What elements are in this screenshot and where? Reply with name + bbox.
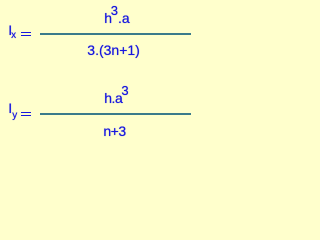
numerator h.a^3: [104, 91, 128, 106]
label I (formula 2): [8, 101, 12, 115]
equals sign 1 top bar: [21, 32, 30, 34]
equals sign 2 top bar: [21, 112, 30, 114]
denominator n+3: [103, 124, 125, 138]
fraction bar 1: [40, 33, 191, 35]
subscript x: [11, 31, 16, 41]
label I (formula 1): [8, 23, 12, 37]
equals sign 1 bottom bar: [21, 35, 30, 37]
subscript y: [12, 111, 17, 121]
fraction bar 2: [40, 113, 191, 115]
numerator h^3.a: [104, 11, 130, 26]
denominator 3.(3n+1): [87, 43, 140, 57]
equals sign 2 bottom bar: [21, 115, 30, 117]
